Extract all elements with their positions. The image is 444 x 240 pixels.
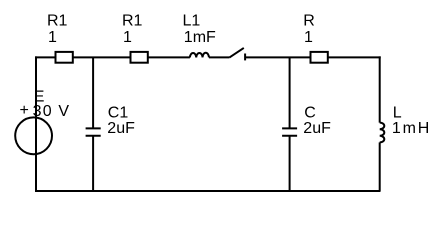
switch S1 contact tick	[244, 54, 246, 61]
wire: right branch top (corner down to L coil)	[379, 56, 381, 122]
wire: C branch bottom	[289, 136, 291, 191]
svg-text:1: 1	[48, 29, 57, 46]
wire: C1 branch bottom	[92, 136, 94, 191]
svg-text:1mF: 1mF	[184, 29, 216, 46]
wire: bottom rail	[35, 190, 381, 192]
svg-text:2uF: 2uF	[107, 120, 135, 137]
wire: right branch bottom (L coil to bottom rail)	[379, 142, 381, 191]
svg-text:1: 1	[304, 29, 313, 46]
capacitor C1 plates	[86, 128, 101, 135]
svg-text:1: 1	[123, 29, 132, 46]
wire: left branch vertical (top rail corner down to bottom rail)	[35, 56, 37, 191]
wire: top rail from left corner to R1	[35, 56, 56, 58]
wire: C1 branch top	[92, 57, 94, 128]
wire: switch to R (junction to C at x=289.6)	[245, 56, 310, 58]
inductor L coil (vertical)	[380, 123, 385, 143]
wire: R1 to second R1 (junction to C1 at x=93)	[73, 56, 131, 58]
wire: C branch top	[289, 57, 291, 128]
resistor R1 (second)	[131, 52, 148, 63]
wire: second R1 to L1	[148, 56, 190, 58]
wire: R to top-right corner	[328, 56, 381, 58]
svg-text:R: R	[303, 13, 315, 30]
capacitor C plates	[282, 128, 297, 135]
wire: L1 to switch	[209, 56, 230, 58]
resistor R	[311, 52, 328, 63]
voltage source E circle	[15, 117, 52, 154]
svg-text:1mH: 1mH	[392, 120, 431, 137]
resistor R1 (first)	[56, 52, 73, 63]
switch S1 blade (open)	[230, 48, 244, 58]
svg-text:L1: L1	[183, 13, 201, 30]
inductor L1 coil	[190, 53, 209, 58]
svg-text:2uF: 2uF	[303, 120, 331, 137]
svg-text:R1: R1	[47, 13, 68, 30]
svg-text:30 V: 30 V	[33, 103, 71, 120]
svg-text:R1: R1	[122, 13, 143, 30]
svg-text:+: +	[20, 102, 29, 119]
